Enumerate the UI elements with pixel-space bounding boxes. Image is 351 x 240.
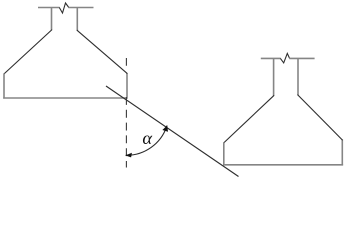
- left footing break line right segment (horizontal): [68, 7, 93, 9]
- angle label alpha: [143, 135, 152, 143]
- dashed vertical reference line (explicit dashes): [125, 58, 127, 168]
- left footing right sloped haunch: [77, 30, 128, 74]
- arrowhead on diagonal (top of arc): [162, 125, 168, 132]
- left footing break line left segment (horizontal): [38, 7, 60, 9]
- angle arc: [126, 126, 167, 156]
- arrowhead on dashed line (bottom of arc): [125, 153, 132, 158]
- right footing break zigzag: [280, 53, 289, 63]
- left footing break zigzag: [59, 3, 69, 13]
- right footing left edge (vertical): [223, 142, 225, 165]
- left footing bottom edge (horizontal): [3, 97, 127, 99]
- sloped ground line (diagonal): [106, 86, 239, 177]
- right footing break line right segment (horizontal): [289, 57, 314, 59]
- right footing bottom edge (horizontal): [223, 164, 343, 166]
- right footing right sloped haunch: [298, 95, 343, 141]
- right footing right edge (vertical): [341, 139, 343, 165]
- right footing column right side (vertical): [297, 58, 299, 95]
- left footing left sloped haunch: [4, 30, 52, 74]
- left footing right edge (vertical): [126, 73, 128, 99]
- right footing break line left segment (horizontal): [261, 57, 281, 59]
- right footing left sloped haunch: [224, 95, 275, 143]
- left footing left edge (vertical): [3, 73, 5, 98]
- left footing column left side (vertical): [51, 8, 53, 31]
- right footing column left side (vertical): [273, 58, 275, 95]
- left footing column right side (vertical): [76, 8, 78, 31]
